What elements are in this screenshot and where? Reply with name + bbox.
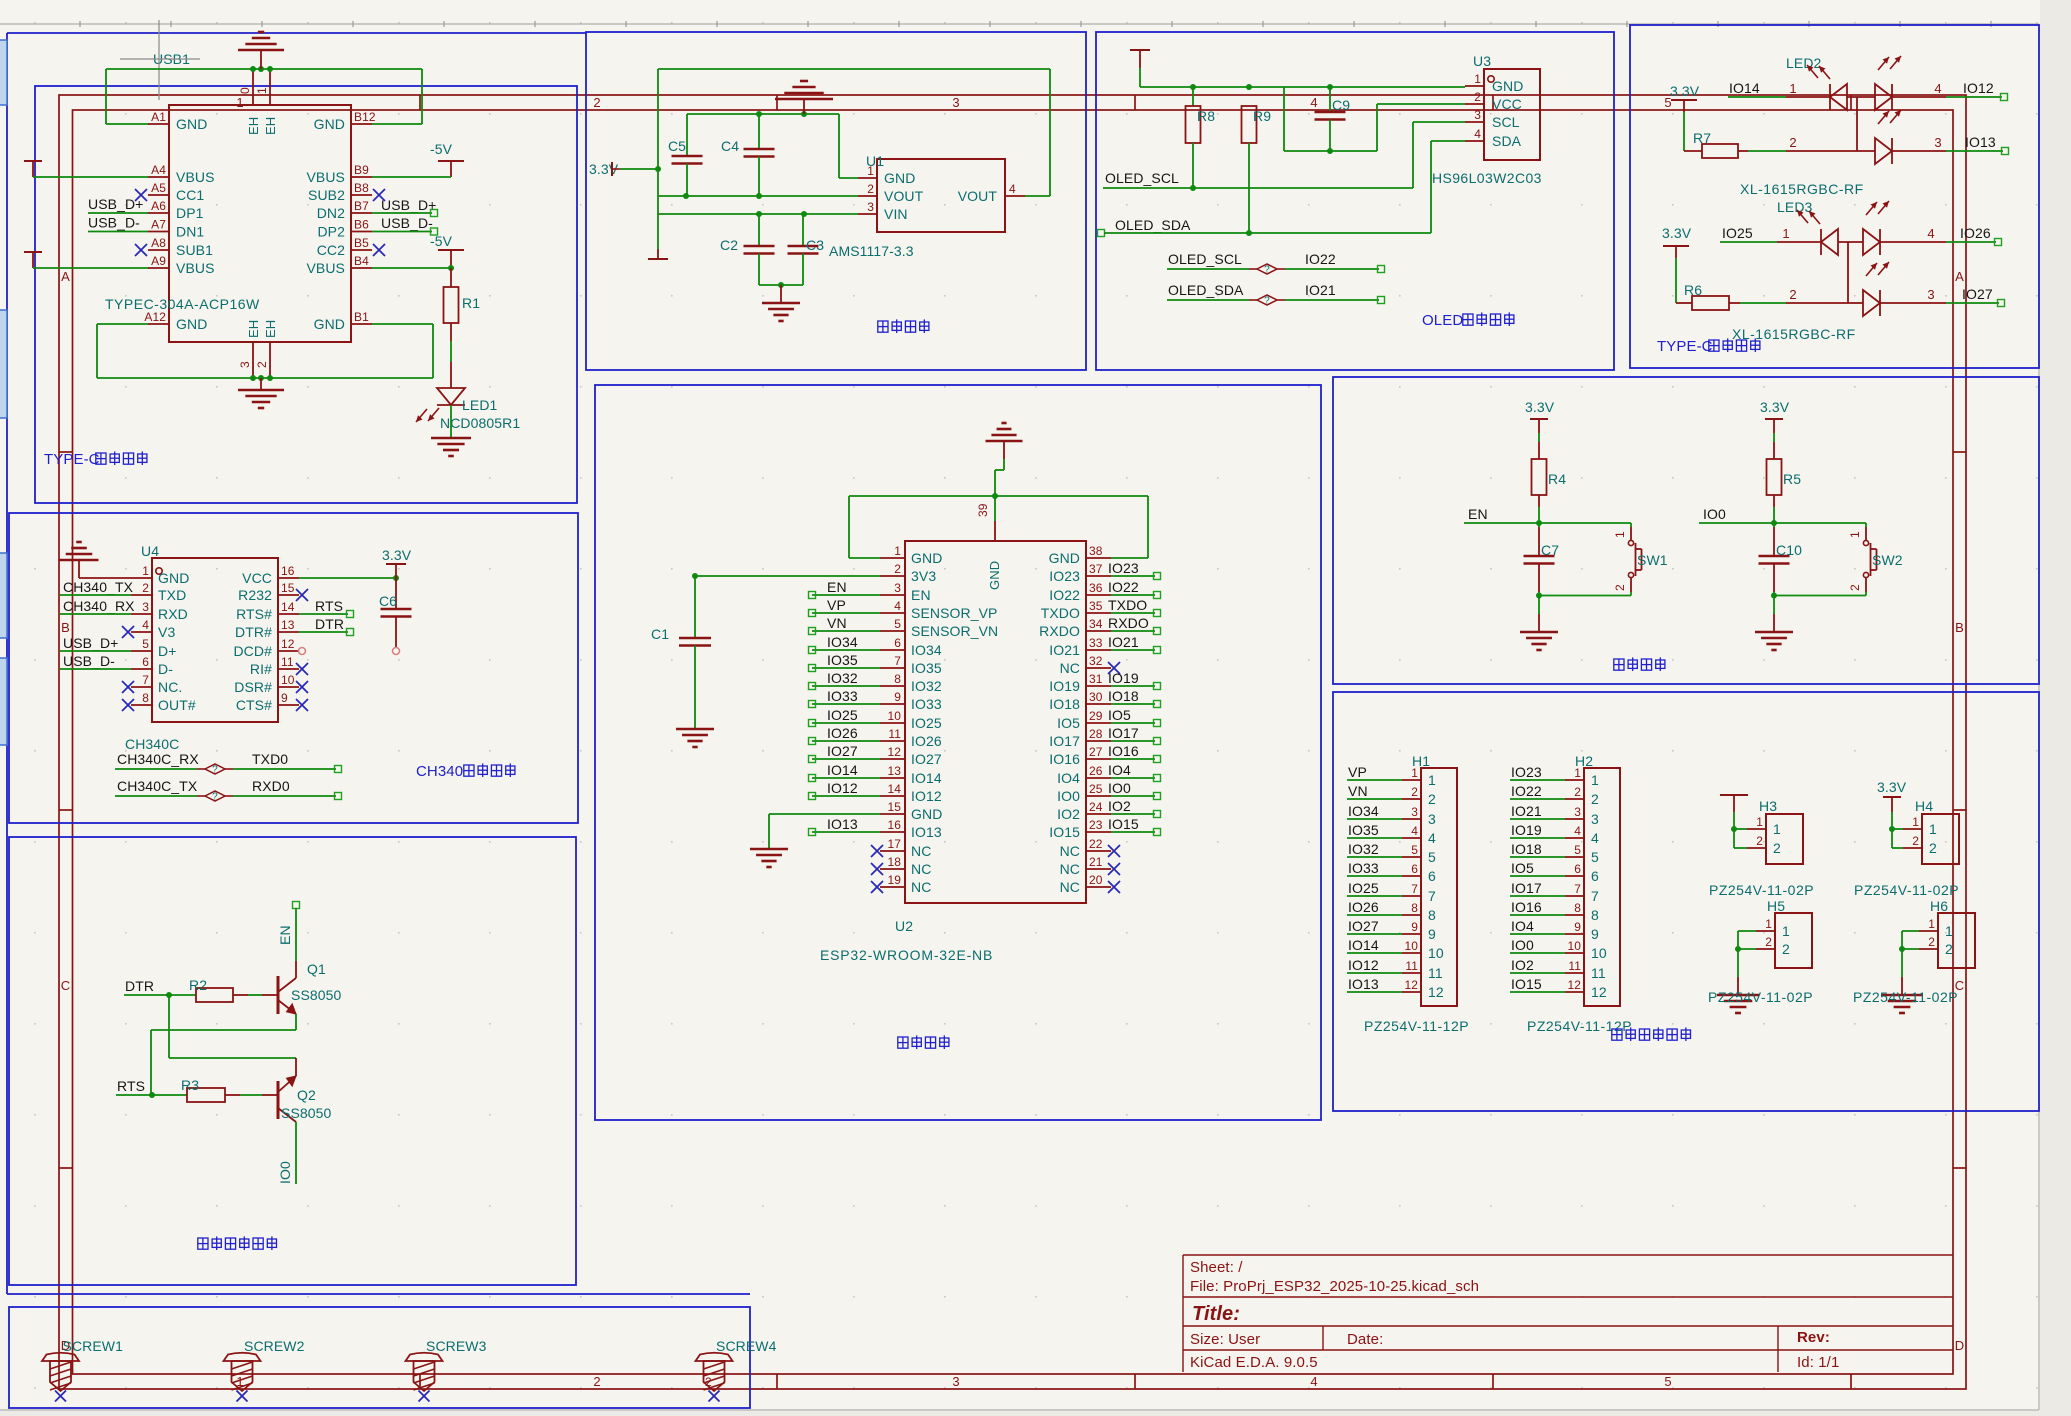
- svg-text:3: 3: [867, 200, 874, 214]
- svg-text:SUB2: SUB2: [308, 187, 345, 203]
- svg-text:5: 5: [1428, 849, 1436, 865]
- svg-text:12: 12: [1428, 984, 1444, 1000]
- svg-text:12: 12: [1567, 978, 1581, 992]
- svg-text:30: 30: [1089, 690, 1103, 704]
- svg-text:11: 11: [281, 655, 294, 669]
- svg-text:4: 4: [894, 599, 901, 613]
- svg-text:34: 34: [1089, 617, 1103, 631]
- svg-text:IO12: IO12: [1963, 80, 1994, 96]
- svg-text:10: 10: [887, 709, 901, 723]
- svg-text:RXD: RXD: [158, 606, 188, 622]
- svg-text:NC: NC: [1060, 660, 1080, 676]
- svg-text:2: 2: [1782, 941, 1790, 957]
- svg-text:IO23: IO23: [1049, 568, 1080, 584]
- svg-text:C5: C5: [668, 138, 686, 154]
- svg-text:RXDO: RXDO: [1108, 615, 1149, 631]
- svg-text:USB_D-: USB_D-: [381, 215, 433, 231]
- svg-text:IO27: IO27: [1962, 286, 1993, 302]
- svg-text:GND: GND: [1492, 78, 1523, 94]
- svg-text:3V3: 3V3: [911, 568, 936, 584]
- svg-text:1: 1: [1773, 821, 1781, 837]
- svg-text:?: ?: [1264, 265, 1270, 276]
- svg-text:USB_D+: USB_D+: [381, 197, 436, 213]
- svg-text:B: B: [61, 620, 70, 635]
- svg-text:IO15: IO15: [1108, 816, 1139, 832]
- svg-text:U4: U4: [141, 543, 159, 559]
- svg-text:10: 10: [1567, 939, 1581, 953]
- svg-text:SCREW4: SCREW4: [716, 1338, 777, 1354]
- svg-text:GND: GND: [158, 570, 189, 586]
- svg-text:SUB1: SUB1: [176, 242, 213, 258]
- svg-text:C10: C10: [1776, 542, 1802, 558]
- svg-text:EH: EH: [263, 117, 278, 135]
- svg-text:A: A: [61, 269, 70, 284]
- svg-text:14: 14: [887, 782, 901, 796]
- svg-text:1: 1: [1782, 226, 1789, 241]
- svg-text:1: 1: [1848, 531, 1862, 538]
- svg-text:28: 28: [1089, 727, 1103, 741]
- svg-text:EH: EH: [263, 320, 278, 338]
- svg-text:CH340C: CH340C: [125, 736, 179, 752]
- svg-text:VBUS: VBUS: [306, 260, 345, 276]
- svg-text:IO2: IO2: [1108, 798, 1131, 814]
- svg-text:29: 29: [1089, 709, 1103, 723]
- svg-text:A: A: [1955, 269, 1964, 284]
- svg-text:1: 1: [894, 544, 901, 558]
- svg-text:2: 2: [1574, 785, 1581, 799]
- svg-text:IO32: IO32: [1348, 841, 1379, 857]
- svg-text:VCC: VCC: [1492, 96, 1522, 112]
- svg-text:IO27: IO27: [827, 743, 858, 759]
- svg-text:RTS: RTS: [117, 1078, 145, 1094]
- svg-text:15: 15: [887, 800, 901, 814]
- svg-text:V3: V3: [158, 624, 175, 640]
- svg-text:1: 1: [1945, 923, 1953, 939]
- svg-text:3: 3: [1591, 811, 1599, 827]
- svg-text:1: 1: [1929, 821, 1937, 837]
- svg-text:VOUT: VOUT: [958, 188, 998, 204]
- svg-text:C4: C4: [721, 138, 739, 154]
- svg-text:VP: VP: [827, 597, 846, 613]
- svg-text:DP2: DP2: [317, 224, 345, 240]
- svg-text:IO12: IO12: [911, 788, 942, 804]
- svg-text:VBUS: VBUS: [176, 260, 215, 276]
- svg-text:3: 3: [1574, 805, 1581, 819]
- svg-text:2: 2: [1912, 834, 1919, 848]
- svg-text:1: 1: [1613, 531, 1627, 538]
- svg-text:NC: NC: [911, 843, 931, 859]
- svg-text:NCD0805R1: NCD0805R1: [440, 415, 520, 431]
- svg-text:IO16: IO16: [1511, 899, 1542, 915]
- svg-text:9: 9: [1574, 920, 1581, 934]
- svg-text:TYPE-C: TYPE-C: [44, 451, 100, 468]
- svg-text:USB_D+: USB_D+: [88, 196, 143, 212]
- svg-text:IO19: IO19: [1108, 670, 1139, 686]
- svg-text:4: 4: [1927, 226, 1934, 241]
- svg-text:3.3V: 3.3V: [1525, 399, 1555, 415]
- svg-text:CC1: CC1: [176, 187, 204, 203]
- svg-text:31: 31: [1089, 672, 1103, 686]
- svg-text:8: 8: [894, 672, 901, 686]
- svg-text:GND: GND: [884, 170, 915, 186]
- svg-text:2: 2: [1411, 785, 1418, 799]
- svg-text:TXD0: TXD0: [252, 751, 288, 767]
- svg-text:Q1: Q1: [307, 961, 326, 977]
- svg-text:IO22: IO22: [1049, 587, 1080, 603]
- svg-text:VBUS: VBUS: [176, 169, 215, 185]
- svg-text:VP: VP: [1348, 764, 1367, 780]
- svg-text:R2: R2: [189, 977, 207, 993]
- svg-text:IO33: IO33: [827, 688, 858, 704]
- svg-text:21: 21: [1089, 855, 1103, 869]
- svg-text:4: 4: [142, 618, 149, 632]
- svg-text:2: 2: [142, 581, 149, 595]
- svg-text:IO0: IO0: [1703, 506, 1726, 522]
- svg-text:9: 9: [1591, 926, 1599, 942]
- svg-text:16: 16: [887, 818, 901, 832]
- svg-text:RTS#: RTS#: [236, 606, 272, 622]
- svg-text:CH340C_TX: CH340C_TX: [117, 778, 198, 794]
- svg-text:RXDO: RXDO: [1039, 623, 1080, 639]
- svg-text:IO25: IO25: [1348, 880, 1379, 896]
- svg-text:25: 25: [1089, 782, 1103, 796]
- svg-text:39: 39: [976, 503, 990, 517]
- svg-text:IO13: IO13: [1965, 134, 1996, 150]
- svg-text:36: 36: [1089, 581, 1103, 595]
- svg-text:16: 16: [281, 564, 295, 578]
- svg-text:A12: A12: [144, 310, 166, 324]
- svg-text:DTR: DTR: [125, 978, 154, 994]
- svg-text:IO26: IO26: [911, 733, 942, 749]
- svg-text:PZ254V-11-02P: PZ254V-11-02P: [1708, 989, 1813, 1005]
- svg-text:R3: R3: [181, 1077, 199, 1093]
- svg-text:R9: R9: [1253, 108, 1271, 124]
- svg-text:0: 0: [238, 87, 252, 94]
- svg-text:NC: NC: [1060, 879, 1080, 895]
- svg-text:2: 2: [1613, 584, 1627, 591]
- svg-text:2: 2: [705, 1375, 712, 1389]
- svg-text:10: 10: [1428, 945, 1444, 961]
- svg-text:IO35: IO35: [911, 660, 942, 676]
- svg-text:A6: A6: [151, 199, 166, 213]
- svg-text:4: 4: [1428, 830, 1436, 846]
- svg-text:NC: NC: [1060, 861, 1080, 877]
- svg-text:9: 9: [281, 691, 288, 705]
- svg-text:IO21: IO21: [1305, 282, 1336, 298]
- svg-text:IO12: IO12: [1348, 957, 1379, 973]
- svg-text:IO0: IO0: [1057, 788, 1080, 804]
- svg-text:Size: User: Size: User: [1190, 1331, 1260, 1348]
- svg-text:NC: NC: [911, 861, 931, 877]
- svg-text:D-: D-: [158, 661, 173, 677]
- svg-text:5: 5: [1411, 843, 1418, 857]
- svg-text:33: 33: [1089, 636, 1103, 650]
- svg-text:IO13: IO13: [827, 816, 858, 832]
- svg-text:IO26: IO26: [827, 725, 858, 741]
- svg-text:IO13: IO13: [911, 824, 942, 840]
- svg-text:XL-1615RGBC-RF: XL-1615RGBC-RF: [1740, 181, 1864, 197]
- svg-text:ESP32-WROOM-32E-NB: ESP32-WROOM-32E-NB: [820, 947, 993, 963]
- svg-text:NC: NC: [1060, 843, 1080, 859]
- svg-text:IO25: IO25: [827, 707, 858, 723]
- svg-text:1: 1: [236, 95, 243, 110]
- svg-text:OUT#: OUT#: [158, 697, 196, 713]
- svg-text:H3: H3: [1759, 798, 1777, 814]
- svg-text:-5V: -5V: [430, 233, 453, 249]
- svg-text:HS96L03W2C03: HS96L03W2C03: [1432, 170, 1542, 186]
- svg-text:3: 3: [1428, 811, 1436, 827]
- svg-text:B9: B9: [354, 163, 369, 177]
- svg-text:CH340_RX: CH340_RX: [63, 598, 135, 614]
- svg-text:?: ?: [1264, 296, 1270, 307]
- svg-text:2: 2: [255, 361, 269, 368]
- svg-text:IO4: IO4: [1057, 770, 1080, 786]
- svg-text:5: 5: [1574, 843, 1581, 857]
- svg-text:IO33: IO33: [911, 696, 942, 712]
- svg-text:IO25: IO25: [1722, 225, 1753, 241]
- svg-text:A7: A7: [151, 218, 166, 232]
- svg-text:TYPEC-304A-ACP16W: TYPEC-304A-ACP16W: [105, 296, 260, 312]
- svg-text:3: 3: [1411, 805, 1418, 819]
- svg-text:3: 3: [1934, 135, 1941, 150]
- svg-text:2: 2: [1929, 840, 1937, 856]
- svg-text:1: 1: [1789, 81, 1796, 96]
- svg-text:1: 1: [867, 164, 874, 178]
- svg-text:B8: B8: [354, 181, 369, 195]
- svg-text:B4: B4: [354, 254, 369, 268]
- svg-text:EH: EH: [246, 320, 261, 338]
- svg-text:6: 6: [894, 636, 901, 650]
- svg-text:PZ254V-11-02P: PZ254V-11-02P: [1709, 882, 1814, 898]
- svg-text:11: 11: [1428, 965, 1443, 981]
- svg-text:RTS: RTS: [315, 598, 343, 614]
- svg-text:9: 9: [1411, 920, 1418, 934]
- svg-text:IO27: IO27: [911, 751, 942, 767]
- svg-text:TXDO: TXDO: [1108, 597, 1147, 613]
- svg-text:EN: EN: [277, 925, 293, 945]
- svg-text:C9: C9: [1332, 97, 1350, 113]
- svg-text:C6: C6: [379, 593, 397, 609]
- svg-text:DTR#: DTR#: [235, 624, 272, 640]
- svg-text:TYPE-C: TYPE-C: [1657, 338, 1713, 355]
- svg-text:IO26: IO26: [1960, 225, 1991, 241]
- svg-text:GND: GND: [1049, 550, 1080, 566]
- svg-text:6: 6: [1574, 862, 1581, 876]
- svg-text:9: 9: [1428, 926, 1436, 942]
- svg-text:6: 6: [142, 655, 149, 669]
- svg-text:B5: B5: [354, 236, 369, 250]
- svg-text:24: 24: [1089, 800, 1103, 814]
- svg-text:R4: R4: [1548, 471, 1566, 487]
- svg-text:VCC: VCC: [242, 570, 272, 586]
- svg-text:Rev:: Rev:: [1797, 1329, 1830, 1346]
- svg-text:2: 2: [1474, 90, 1481, 104]
- svg-text:B6: B6: [354, 218, 369, 232]
- svg-text:R232: R232: [238, 587, 272, 603]
- svg-text:1: 1: [255, 87, 269, 94]
- svg-text:3: 3: [1474, 108, 1481, 122]
- svg-text:R5: R5: [1783, 471, 1801, 487]
- svg-text:2: 2: [1765, 935, 1772, 949]
- svg-text:5: 5: [1664, 1374, 1671, 1389]
- svg-text:D+: D+: [158, 643, 177, 659]
- svg-text:7: 7: [1411, 882, 1418, 896]
- svg-text:35: 35: [1089, 599, 1103, 613]
- svg-text:7: 7: [894, 654, 901, 668]
- svg-text:IO16: IO16: [1049, 751, 1080, 767]
- svg-text:IO0: IO0: [1108, 780, 1131, 796]
- svg-text:XL-1615RGBC-RF: XL-1615RGBC-RF: [1732, 326, 1856, 342]
- svg-text:GND: GND: [911, 550, 942, 566]
- svg-text:6: 6: [1591, 868, 1599, 884]
- svg-text:DCD#: DCD#: [233, 643, 272, 659]
- svg-text:-5V: -5V: [430, 141, 453, 157]
- svg-text:SENSOR_VN: SENSOR_VN: [911, 623, 998, 639]
- svg-text:IO15: IO15: [1511, 976, 1542, 992]
- svg-text:GND: GND: [176, 116, 207, 132]
- svg-text:B1: B1: [354, 310, 369, 324]
- svg-text:IO5: IO5: [1511, 860, 1534, 876]
- svg-text:IO18: IO18: [1049, 696, 1080, 712]
- svg-text:SW2: SW2: [1872, 552, 1903, 568]
- svg-text:PZ254V-11-02P: PZ254V-11-02P: [1853, 989, 1958, 1005]
- svg-text:1: 1: [1782, 923, 1790, 939]
- svg-text:20: 20: [1089, 873, 1103, 887]
- svg-text:IO17: IO17: [1511, 880, 1542, 896]
- svg-text:2: 2: [593, 95, 600, 110]
- svg-text:EH: EH: [246, 117, 261, 135]
- svg-text:LED2: LED2: [1786, 55, 1822, 71]
- svg-text:SDA: SDA: [1492, 133, 1522, 149]
- svg-text:EN: EN: [827, 579, 847, 595]
- svg-text:8: 8: [1591, 907, 1599, 923]
- svg-text:IO21: IO21: [1049, 642, 1080, 658]
- svg-text:TXDO: TXDO: [1041, 605, 1080, 621]
- svg-text:3.3V: 3.3V: [382, 547, 412, 563]
- svg-text:2: 2: [1428, 791, 1436, 807]
- svg-text:1: 1: [1411, 766, 1418, 780]
- svg-text:3: 3: [952, 95, 959, 110]
- svg-text:2: 2: [1848, 584, 1862, 591]
- svg-text:RI#: RI#: [250, 661, 272, 677]
- svg-text:IO35: IO35: [827, 652, 858, 668]
- svg-text:SS8050: SS8050: [291, 987, 342, 1003]
- svg-text:2: 2: [1928, 935, 1935, 949]
- svg-text:OLED_SDA: OLED_SDA: [1168, 282, 1244, 298]
- svg-text:GND: GND: [911, 806, 942, 822]
- svg-text:IO5: IO5: [1057, 715, 1080, 731]
- svg-text:IO2: IO2: [1511, 957, 1534, 973]
- svg-text:IO27: IO27: [1348, 918, 1379, 934]
- svg-text:CH340_TX: CH340_TX: [63, 579, 134, 595]
- svg-text:1: 1: [1912, 815, 1919, 829]
- svg-text:IO26: IO26: [1348, 899, 1379, 915]
- svg-text:2: 2: [1789, 135, 1796, 150]
- svg-text:CH340C_RX: CH340C_RX: [117, 751, 199, 767]
- svg-text:?: ?: [212, 792, 218, 803]
- svg-text:11: 11: [1405, 959, 1418, 973]
- svg-text:8: 8: [1411, 901, 1418, 915]
- svg-text:DTR: DTR: [315, 616, 344, 632]
- svg-text:10: 10: [1591, 945, 1607, 961]
- svg-text:IO12: IO12: [827, 780, 858, 796]
- svg-text:IO14: IO14: [1348, 937, 1379, 953]
- svg-text:5: 5: [894, 617, 901, 631]
- svg-text:IO33: IO33: [1348, 860, 1379, 876]
- svg-text:CTS#: CTS#: [236, 697, 272, 713]
- svg-text:IO21: IO21: [1108, 634, 1139, 650]
- svg-text:2: 2: [867, 182, 874, 196]
- svg-text:SCREW2: SCREW2: [244, 1338, 305, 1354]
- svg-text:4: 4: [1591, 830, 1599, 846]
- svg-text:?: ?: [212, 765, 218, 776]
- svg-text:R1: R1: [462, 295, 480, 311]
- svg-text:IO4: IO4: [1511, 918, 1534, 934]
- svg-text:B: B: [1955, 620, 1964, 635]
- svg-text:4: 4: [1574, 824, 1581, 838]
- svg-text:6: 6: [1411, 862, 1418, 876]
- svg-text:R6: R6: [1684, 282, 1702, 298]
- svg-text:3: 3: [238, 361, 252, 368]
- svg-text:IO14: IO14: [827, 762, 858, 778]
- svg-text:9: 9: [894, 690, 901, 704]
- svg-text:H6: H6: [1930, 898, 1948, 914]
- svg-text:USB_D+: USB_D+: [63, 635, 118, 651]
- svg-text:KiCad E.D.A. 9.0.5: KiCad E.D.A. 9.0.5: [1190, 1354, 1318, 1371]
- svg-text:3: 3: [894, 581, 901, 595]
- svg-text:32: 32: [1089, 654, 1103, 668]
- svg-text:VIN: VIN: [884, 206, 908, 222]
- svg-text:IO16: IO16: [1108, 743, 1139, 759]
- svg-text:IO18: IO18: [1108, 688, 1139, 704]
- svg-text:7: 7: [1574, 882, 1581, 896]
- svg-text:IO23: IO23: [1108, 560, 1139, 576]
- svg-text:DSR#: DSR#: [234, 679, 272, 695]
- svg-text:LED3: LED3: [1777, 199, 1813, 215]
- svg-text:37: 37: [1089, 562, 1103, 576]
- svg-text:VOUT: VOUT: [884, 188, 924, 204]
- svg-text:NC.: NC.: [158, 679, 182, 695]
- svg-text:1: 1: [1591, 772, 1599, 788]
- svg-text:22: 22: [1089, 837, 1103, 851]
- svg-text:DP1: DP1: [176, 205, 204, 221]
- svg-text:TXD: TXD: [158, 587, 186, 603]
- svg-text:IO19: IO19: [1049, 678, 1080, 694]
- svg-text:3.3V: 3.3V: [1877, 779, 1907, 795]
- svg-text:23: 23: [1089, 818, 1103, 832]
- svg-text:C7: C7: [1541, 542, 1559, 558]
- svg-text:11: 11: [888, 727, 901, 741]
- svg-text:3: 3: [952, 1374, 959, 1389]
- svg-text:SENSOR_VP: SENSOR_VP: [911, 605, 998, 621]
- svg-text:2: 2: [1773, 840, 1781, 856]
- svg-text:2: 2: [1591, 791, 1599, 807]
- svg-text:Q2: Q2: [297, 1087, 316, 1103]
- svg-text:IO34: IO34: [827, 634, 858, 650]
- svg-text:IO34: IO34: [911, 642, 942, 658]
- svg-text:12: 12: [1404, 978, 1418, 992]
- svg-text:SCREW1: SCREW1: [63, 1338, 124, 1354]
- svg-text:EN: EN: [911, 587, 931, 603]
- svg-text:IO0: IO0: [277, 1161, 293, 1184]
- svg-text:IO35: IO35: [1348, 822, 1379, 838]
- svg-text:H5: H5: [1767, 898, 1785, 914]
- svg-text:5: 5: [142, 637, 149, 651]
- svg-text:IO18: IO18: [1511, 841, 1542, 857]
- svg-text:17: 17: [887, 837, 901, 851]
- svg-text:VN: VN: [1348, 783, 1368, 799]
- svg-text:2: 2: [1756, 834, 1763, 848]
